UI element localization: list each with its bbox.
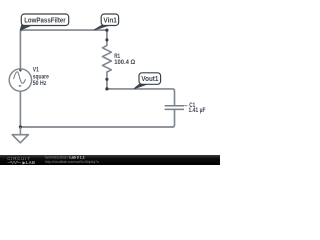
- svg-text:LowPassFilter: LowPassFilter: [24, 17, 66, 24]
- wire: V1 bottom lead to ground junction: [19, 91, 21, 127]
- CircuitLab logo wave + LAB: [8, 161, 22, 163]
- node dot: ground junction: [19, 125, 22, 128]
- node dot: corner of Vin1 net: [105, 29, 108, 32]
- label leader C1: [184, 105, 188, 107]
- resistor R1: [102, 40, 111, 79]
- wire: V1 top lead up to corner at node Vin1: [20, 30, 22, 69]
- flag label Vin1: [94, 14, 119, 30]
- wire: top horizontal (node Vin1): [22, 30, 107, 40]
- svg-text:http://circuitlab.com/cw/9c43q: http://circuitlab.com/cw/9c43qh6q7u: [45, 160, 99, 164]
- svg-text:100.4 Ω: 100.4 Ω: [114, 59, 135, 66]
- resistor R1 terminal dot top: [105, 38, 108, 41]
- svg-text:50 Hz: 50 Hz: [33, 80, 47, 87]
- voltage source V1 circle: [9, 69, 31, 91]
- svg-text:Vin1: Vin1: [103, 17, 117, 24]
- capacitor C1: [165, 106, 184, 110]
- wire: bottom ground rail: [20, 126, 172, 128]
- V1 waveform: [14, 72, 26, 83]
- flag label LowPassFilter: [20, 14, 68, 30]
- node dot: corner at Vout1 net: [105, 87, 108, 90]
- svg-text:▶LAB: ▶LAB: [22, 160, 36, 165]
- wire: resistor bottom to Vout corner: [107, 79, 109, 89]
- resistor R1 terminal dot bottom: [105, 78, 108, 81]
- svg-text:1.41 µF: 1.41 µF: [189, 107, 206, 114]
- svg-text:Vout1: Vout1: [141, 76, 158, 83]
- wire: Vout1 horizontal: [109, 89, 175, 105]
- flag label Vout1: [134, 73, 161, 89]
- V1 plus sign: [19, 69, 22, 72]
- wire: capacitor bottom lead down to bottom rail: [173, 110, 175, 127]
- V1 minus sign: [19, 85, 22, 87]
- ground: [12, 127, 28, 143]
- watermark bar: [0, 155, 220, 165]
